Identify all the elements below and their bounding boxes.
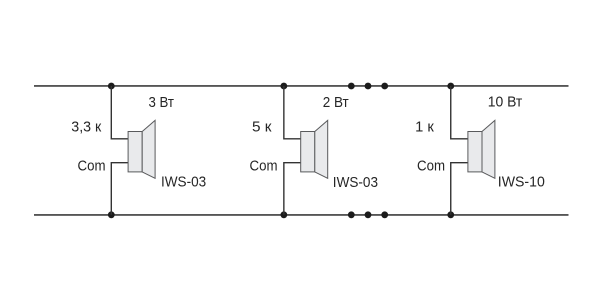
label: speaker 2 power "2 Вт" — [323, 94, 349, 111]
junction node: speaker 1 tap to top bus — [108, 83, 115, 90]
svg-text:5 к: 5 к — [252, 118, 272, 135]
node: line continuation dots on top bus (dot 3) — [381, 83, 388, 90]
junction node: speaker 3 tap to top bus — [447, 83, 454, 90]
svg-text:3,3 к: 3,3 к — [71, 118, 101, 135]
speaker LS3 driver body (IWS-10) — [468, 132, 482, 172]
node: line continuation dots on bottom bus (dot 1) — [348, 211, 355, 218]
wire: speaker 1 tap drop from top bus — [111, 86, 128, 139]
svg-text:IWS-03: IWS-03 — [161, 174, 206, 191]
svg-text:IWS-10: IWS-10 — [498, 174, 545, 191]
speaker LS1 driver body (IWS-03) — [128, 132, 142, 172]
wire: speaker 3 tap drop from top bus — [451, 86, 468, 139]
label: speaker 3 power "10 Вт" — [488, 93, 523, 110]
junction node: speaker 2 tap to top bus — [280, 83, 287, 90]
junction node: speaker 1 common to bottom bus — [108, 211, 115, 218]
svg-text:3 Вт: 3 Вт — [149, 94, 175, 111]
label: speaker 2 common terminal "Com" — [250, 158, 278, 175]
svg-text:Com: Com — [78, 158, 106, 175]
wire: speaker 3 common lead to bottom bus — [451, 163, 468, 215]
speaker LS1 cone — [142, 120, 155, 178]
junction node: speaker 3 common to bottom bus — [447, 211, 454, 218]
svg-text:Com: Com — [250, 158, 278, 175]
speaker LS2 driver body (IWS-03) — [301, 132, 315, 172]
svg-text:Com: Com — [417, 158, 445, 175]
node: line continuation dots on top bus (dot 2) — [365, 83, 372, 90]
svg-text:10 Вт: 10 Вт — [488, 93, 523, 110]
svg-text:IWS-03: IWS-03 — [333, 174, 378, 191]
node: line continuation dots on bottom bus (dot 2) — [365, 211, 372, 218]
wire: speaker 1 common lead to bottom bus — [111, 163, 128, 215]
label: speaker 1 power "3 Вт" — [149, 94, 175, 111]
wire: speaker 2 tap drop from top bus — [284, 86, 301, 139]
label: speaker 3 model "IWS-10" — [498, 174, 545, 191]
label: speaker 1 common terminal "Com" — [78, 158, 106, 175]
label: speaker 2 tap "5 к" — [252, 118, 272, 135]
wire: bottom bus line (Com) — [34, 214, 569, 216]
wire: top bus line (+) — [34, 85, 569, 87]
label: speaker 3 tap "1 к" — [415, 118, 434, 135]
svg-text:2 Вт: 2 Вт — [323, 94, 349, 111]
speaker LS2 cone — [315, 120, 328, 178]
node: line continuation dots on bottom bus (dot 3) — [381, 211, 388, 218]
label: speaker 2 model "IWS-03" — [333, 174, 378, 191]
junction node: speaker 2 common to bottom bus — [280, 211, 287, 218]
svg-text:1 к: 1 к — [415, 118, 434, 135]
label: speaker 1 tap "3,3 к" — [71, 118, 101, 135]
label: speaker 1 model "IWS-03" — [161, 174, 206, 191]
wire: speaker 2 common lead to bottom bus — [284, 163, 301, 215]
speaker LS3 cone — [482, 120, 495, 178]
node: line continuation dots on top bus (dot 1) — [348, 83, 355, 90]
label: speaker 3 common terminal "Com" — [417, 158, 445, 175]
